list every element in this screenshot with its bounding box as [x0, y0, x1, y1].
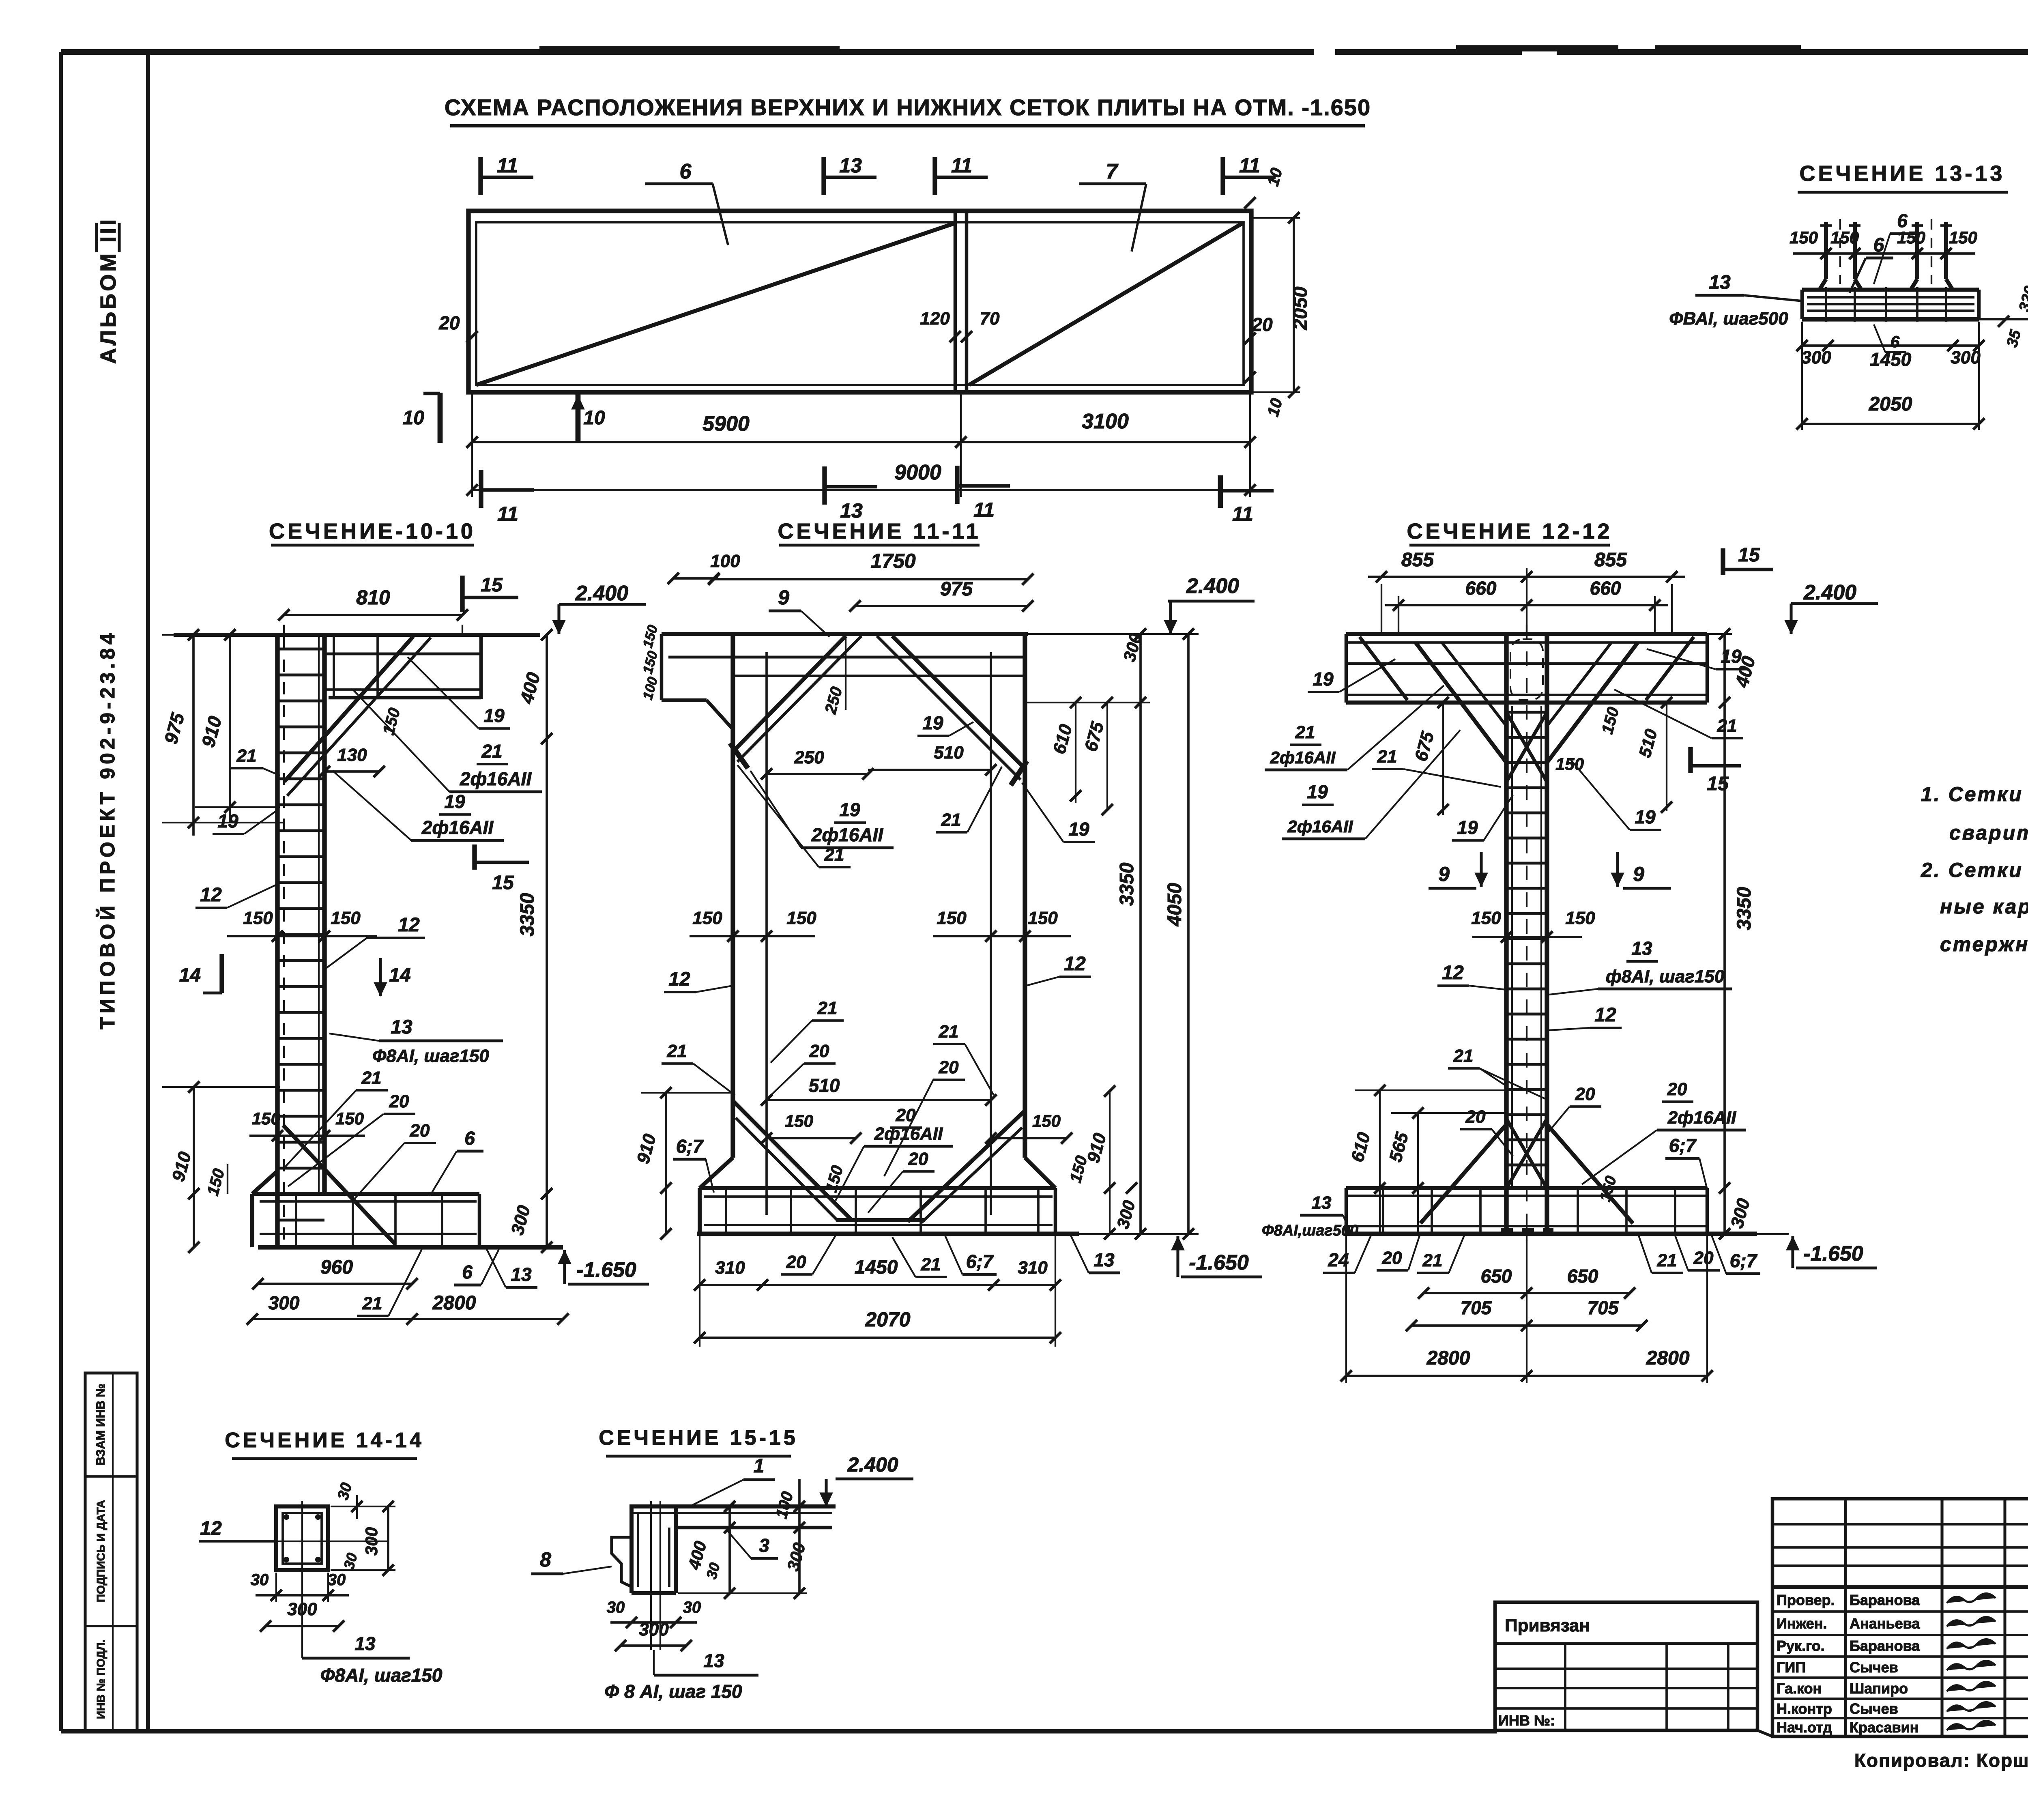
svg-text:19: 19 [922, 712, 943, 733]
svg-text:ИНВ №:: ИНВ №: [1498, 1712, 1555, 1729]
svg-text:2050: 2050 [1869, 393, 1912, 415]
svg-text:20: 20 [389, 1092, 409, 1111]
svg-text:11: 11 [951, 154, 972, 177]
svg-text:12: 12 [398, 914, 420, 936]
svg-text:510: 510 [809, 1075, 840, 1096]
svg-text:ПОДПИСЬ И ДАТА: ПОДПИСЬ И ДАТА [95, 1500, 107, 1602]
svg-text:13: 13 [1093, 1249, 1115, 1270]
svg-text:13: 13 [1312, 1193, 1332, 1213]
svg-text:855: 855 [1594, 549, 1627, 571]
svg-text:20: 20 [1667, 1079, 1687, 1099]
svg-text:705: 705 [1461, 1297, 1492, 1318]
svg-text:20: 20 [939, 1057, 959, 1077]
svg-text:2ф16АII: 2ф16АII [1270, 748, 1336, 767]
svg-text:300: 300 [1801, 348, 1831, 367]
svg-text:14: 14 [179, 965, 201, 986]
svg-text:Привязан: Привязан [1505, 1616, 1590, 1635]
svg-text:19: 19 [483, 705, 505, 726]
svg-text:3100: 3100 [1082, 410, 1129, 433]
svg-text:21: 21 [361, 1068, 382, 1088]
svg-text:2ф16АII: 2ф16АII [874, 1124, 943, 1144]
svg-text:АЛЬБОМ III: АЛЬБОМ III [96, 217, 120, 364]
svg-text:30: 30 [683, 1599, 701, 1616]
svg-text:8: 8 [540, 1548, 551, 1571]
svg-text:19: 19 [1721, 646, 1742, 667]
svg-text:СЕЧЕНИЕ 13-13: СЕЧЕНИЕ 13-13 [1800, 161, 2005, 186]
svg-text:7: 7 [1106, 160, 1119, 183]
svg-text:21: 21 [1717, 716, 1737, 736]
svg-text:20: 20 [786, 1252, 806, 1272]
svg-text:21: 21 [921, 1255, 941, 1274]
svg-text:Рук.го.: Рук.го. [1777, 1637, 1825, 1654]
svg-text:Инжен.: Инжен. [1777, 1615, 1827, 1632]
svg-text:21: 21 [1377, 747, 1397, 767]
svg-text:2800: 2800 [1646, 1347, 1690, 1369]
svg-text:10: 10 [583, 407, 605, 429]
svg-text:19: 19 [1307, 781, 1328, 802]
svg-text:310: 310 [715, 1258, 745, 1278]
svg-text:21: 21 [941, 810, 961, 830]
svg-text:15: 15 [481, 574, 503, 596]
svg-text:2.400: 2.400 [1186, 574, 1239, 598]
svg-text:Сычев: Сычев [1850, 1700, 1898, 1717]
svg-text:20: 20 [1382, 1248, 1402, 1268]
svg-text:21: 21 [817, 998, 838, 1018]
svg-text:150: 150 [692, 908, 722, 928]
svg-text:1450: 1450 [1870, 349, 1912, 370]
svg-text:СЕЧЕНИЕ 14-14: СЕЧЕНИЕ 14-14 [225, 1429, 424, 1452]
svg-text:ФВАI, шаг500: ФВАI, шаг500 [1669, 309, 1788, 329]
svg-text:11: 11 [1239, 154, 1260, 177]
svg-text:СЕЧЕНИЕ 11-11: СЕЧЕНИЕ 11-11 [778, 519, 981, 544]
svg-text:21: 21 [1295, 722, 1315, 742]
svg-text:150: 150 [1032, 1111, 1061, 1130]
svg-text:21: 21 [824, 845, 844, 865]
svg-text:СЕЧЕНИЕ 12-12: СЕЧЕНИЕ 12-12 [1407, 519, 1613, 544]
svg-text:150: 150 [331, 908, 361, 928]
svg-text:12: 12 [1442, 962, 1464, 984]
svg-text:20: 20 [1693, 1248, 1714, 1268]
svg-text:21: 21 [1422, 1251, 1443, 1270]
svg-text:6: 6 [462, 1261, 473, 1283]
svg-text:150: 150 [1830, 228, 1859, 247]
svg-text:20: 20 [438, 312, 460, 333]
svg-text:1. Сетки поз. 6, 7. 12, 8. 9: 1. Сетки поз. 6, 7. 12, 8. 9 после монта… [1921, 783, 2028, 806]
svg-text:300: 300 [362, 1527, 381, 1556]
svg-text:300: 300 [1951, 348, 1981, 367]
svg-text:Ананьева: Ананьева [1850, 1615, 1920, 1632]
svg-text:20: 20 [908, 1149, 928, 1169]
svg-text:150: 150 [243, 908, 273, 928]
svg-text:6;7: 6;7 [1669, 1135, 1697, 1156]
svg-text:2.400: 2.400 [575, 582, 628, 605]
svg-text:СЕЧЕНИЕ 15-15: СЕЧЕНИЕ 15-15 [599, 1426, 798, 1450]
svg-text:15: 15 [1707, 773, 1729, 795]
svg-text:2800: 2800 [1426, 1347, 1470, 1369]
svg-text:ГИП: ГИП [1777, 1659, 1806, 1676]
svg-text:300: 300 [269, 1292, 300, 1313]
svg-text:2050: 2050 [1290, 286, 1311, 330]
svg-text:9: 9 [1633, 863, 1644, 885]
svg-text:Н.контр: Н.контр [1777, 1700, 1832, 1717]
svg-text:6: 6 [1897, 210, 1908, 231]
svg-text:6: 6 [464, 1128, 475, 1149]
svg-text:150: 150 [1790, 228, 1818, 247]
svg-text:2070: 2070 [865, 1308, 910, 1331]
svg-text:сварить между собой.: сварить между собой. [1949, 821, 2028, 844]
svg-text:9: 9 [1438, 863, 1450, 885]
svg-text:ИНВ № ПОДЛ.: ИНВ № ПОДЛ. [95, 1640, 107, 1719]
svg-text:6;7: 6;7 [1730, 1250, 1758, 1271]
svg-text:Ф8АI,шаг500: Ф8АI,шаг500 [1262, 1222, 1358, 1239]
svg-text:12: 12 [1064, 953, 1086, 975]
svg-text:2.400: 2.400 [847, 1453, 898, 1476]
svg-text:2ф16АII: 2ф16АII [811, 824, 883, 845]
svg-text:13: 13 [1631, 938, 1652, 959]
svg-text:6;7: 6;7 [676, 1136, 704, 1157]
svg-text:100: 100 [710, 551, 740, 571]
svg-text:2ф16АII: 2ф16АII [1287, 817, 1353, 836]
svg-text:650: 650 [1567, 1266, 1598, 1287]
svg-text:6: 6 [1873, 234, 1884, 256]
svg-text:19: 19 [217, 810, 238, 832]
svg-text:9: 9 [778, 586, 789, 609]
svg-text:2. Сетки поз. 12 сварить в: 2. Сетки поз. 12 сварить в пространствен… [1921, 859, 2028, 881]
svg-text:310: 310 [1018, 1258, 1048, 1278]
svg-text:13: 13 [354, 1633, 376, 1654]
svg-text:21: 21 [362, 1294, 382, 1313]
svg-text:150: 150 [786, 908, 816, 928]
svg-text:20: 20 [410, 1121, 430, 1141]
svg-text:150: 150 [937, 908, 967, 928]
svg-text:975: 975 [940, 578, 973, 600]
svg-text:19: 19 [1313, 668, 1334, 690]
svg-text:3350: 3350 [1116, 862, 1138, 906]
svg-text:21: 21 [939, 1022, 959, 1042]
svg-text:13: 13 [839, 154, 862, 177]
svg-text:21: 21 [481, 741, 502, 762]
svg-text:12: 12 [1594, 1004, 1616, 1026]
svg-text:3: 3 [759, 1535, 769, 1556]
svg-text:Нач.отд: Нач.отд [1777, 1719, 1832, 1736]
svg-text:250: 250 [794, 748, 824, 767]
svg-text:19: 19 [444, 791, 465, 812]
svg-text:21: 21 [1453, 1046, 1474, 1066]
svg-text:12: 12 [200, 1518, 222, 1539]
svg-text:19: 19 [1635, 806, 1656, 827]
svg-text:19: 19 [1068, 819, 1089, 840]
svg-text:150: 150 [1028, 908, 1058, 928]
svg-text:70: 70 [980, 309, 1000, 329]
svg-text:-1.650: -1.650 [1803, 1242, 1863, 1266]
svg-text:11: 11 [497, 503, 518, 525]
svg-text:150: 150 [1949, 228, 1977, 247]
svg-text:3350: 3350 [517, 893, 538, 936]
svg-text:Га.кон: Га.кон [1777, 1680, 1822, 1697]
svg-text:150: 150 [252, 1109, 280, 1128]
svg-text:20: 20 [1465, 1107, 1486, 1127]
svg-text:30: 30 [328, 1571, 346, 1589]
svg-text:120: 120 [920, 309, 950, 329]
svg-text:130: 130 [337, 745, 367, 765]
svg-text:-1.650: -1.650 [1189, 1251, 1249, 1274]
svg-text:5900: 5900 [702, 412, 750, 436]
svg-text:21: 21 [1657, 1251, 1677, 1270]
svg-text:11: 11 [1232, 503, 1253, 525]
svg-text:14: 14 [389, 965, 410, 986]
svg-text:30: 30 [251, 1571, 269, 1589]
svg-text:ф8АI, шаг150: ф8АI, шаг150 [1606, 967, 1725, 986]
svg-text:12: 12 [200, 884, 222, 906]
svg-text:510: 510 [934, 743, 964, 763]
svg-text:Красавин: Красавин [1850, 1719, 1918, 1736]
svg-text:1: 1 [754, 1455, 765, 1477]
svg-text:150: 150 [785, 1111, 813, 1130]
svg-text:650: 650 [1481, 1266, 1512, 1287]
svg-text:21: 21 [236, 746, 257, 766]
svg-text:СХЕМА РАСПОЛОЖЕНИЯ ВЕРХНИХ И Н: СХЕМА РАСПОЛОЖЕНИЯ ВЕРХНИХ И НИЖНИХ СЕТО… [445, 95, 1371, 120]
svg-text:705: 705 [1588, 1297, 1619, 1318]
svg-text:ВЗАМ ИНВ №: ВЗАМ ИНВ № [94, 1384, 107, 1465]
svg-text:19: 19 [839, 799, 860, 820]
svg-text:30: 30 [607, 1599, 625, 1616]
svg-text:20: 20 [1575, 1084, 1595, 1104]
svg-text:Ф8АI, шаг150: Ф8АI, шаг150 [372, 1046, 489, 1066]
svg-text:Ф8АI, шаг150: Ф8АI, шаг150 [320, 1665, 443, 1686]
svg-text:15: 15 [1738, 544, 1760, 566]
svg-text:11: 11 [497, 154, 518, 177]
svg-text:3350: 3350 [1734, 887, 1755, 930]
svg-text:Баранова: Баранова [1850, 1637, 1920, 1654]
svg-text:6;7: 6;7 [966, 1251, 994, 1272]
svg-text:13: 13 [391, 1016, 412, 1038]
svg-text:СЕЧЕНИЕ-10-10: СЕЧЕНИЕ-10-10 [269, 519, 476, 544]
svg-text:660: 660 [1590, 578, 1621, 599]
svg-text:2.400: 2.400 [1803, 581, 1856, 604]
svg-text:12: 12 [668, 969, 690, 990]
svg-text:150: 150 [1565, 908, 1595, 928]
svg-text:150: 150 [1471, 908, 1501, 928]
svg-text:Шапиро: Шапиро [1850, 1680, 1908, 1697]
svg-text:Сычев: Сычев [1850, 1659, 1898, 1676]
svg-text:6: 6 [680, 160, 692, 183]
svg-text:150: 150 [1555, 754, 1584, 774]
svg-text:13: 13 [703, 1650, 724, 1671]
svg-text:21: 21 [667, 1041, 687, 1061]
svg-text:13: 13 [840, 499, 863, 522]
svg-text:10: 10 [403, 407, 425, 429]
svg-text:6: 6 [1891, 333, 1900, 351]
svg-text:300: 300 [639, 1620, 669, 1640]
svg-text:-1.650: -1.650 [576, 1258, 636, 1282]
svg-text:Копировал: Коршунова: Копировал: Коршунова [1854, 1750, 2028, 1771]
svg-text:15: 15 [492, 872, 514, 894]
svg-text:11: 11 [973, 499, 995, 521]
svg-text:2ф16АII: 2ф16АII [421, 817, 494, 838]
svg-text:20: 20 [809, 1041, 829, 1061]
svg-text:13: 13 [511, 1264, 532, 1285]
svg-text:855: 855 [1401, 549, 1434, 571]
svg-text:13: 13 [1709, 272, 1731, 293]
svg-text:Баранова: Баранова [1850, 1592, 1920, 1608]
svg-text:1450: 1450 [855, 1257, 898, 1278]
svg-text:9000: 9000 [894, 461, 941, 484]
svg-text:960: 960 [320, 1257, 353, 1278]
svg-text:ные каркасы при помощи отд: ные каркасы при помощи отдельных [1940, 895, 2028, 918]
svg-text:2800: 2800 [432, 1292, 476, 1314]
svg-text:660: 660 [1465, 578, 1497, 599]
svg-text:150: 150 [335, 1109, 364, 1128]
svg-text:2ф16АII: 2ф16АII [1667, 1108, 1736, 1128]
svg-text:4050: 4050 [1164, 883, 1186, 926]
svg-text:ТИПОВОЙ ПРОЕКТ 902-9-23.84: ТИПОВОЙ ПРОЕКТ 902-9-23.84 [96, 630, 119, 1029]
svg-text:19: 19 [1457, 817, 1478, 838]
svg-text:Провер.: Провер. [1777, 1592, 1835, 1608]
svg-text:20: 20 [896, 1105, 916, 1125]
svg-text:стержней поз. 13.: стержней поз. 13. [1940, 933, 2028, 956]
svg-text:Ф 8 АI, шаг 150: Ф 8 АI, шаг 150 [604, 1681, 742, 1702]
svg-text:810: 810 [356, 586, 390, 609]
svg-text:2ф16АII: 2ф16АII [460, 768, 532, 789]
svg-text:1750: 1750 [870, 550, 915, 572]
